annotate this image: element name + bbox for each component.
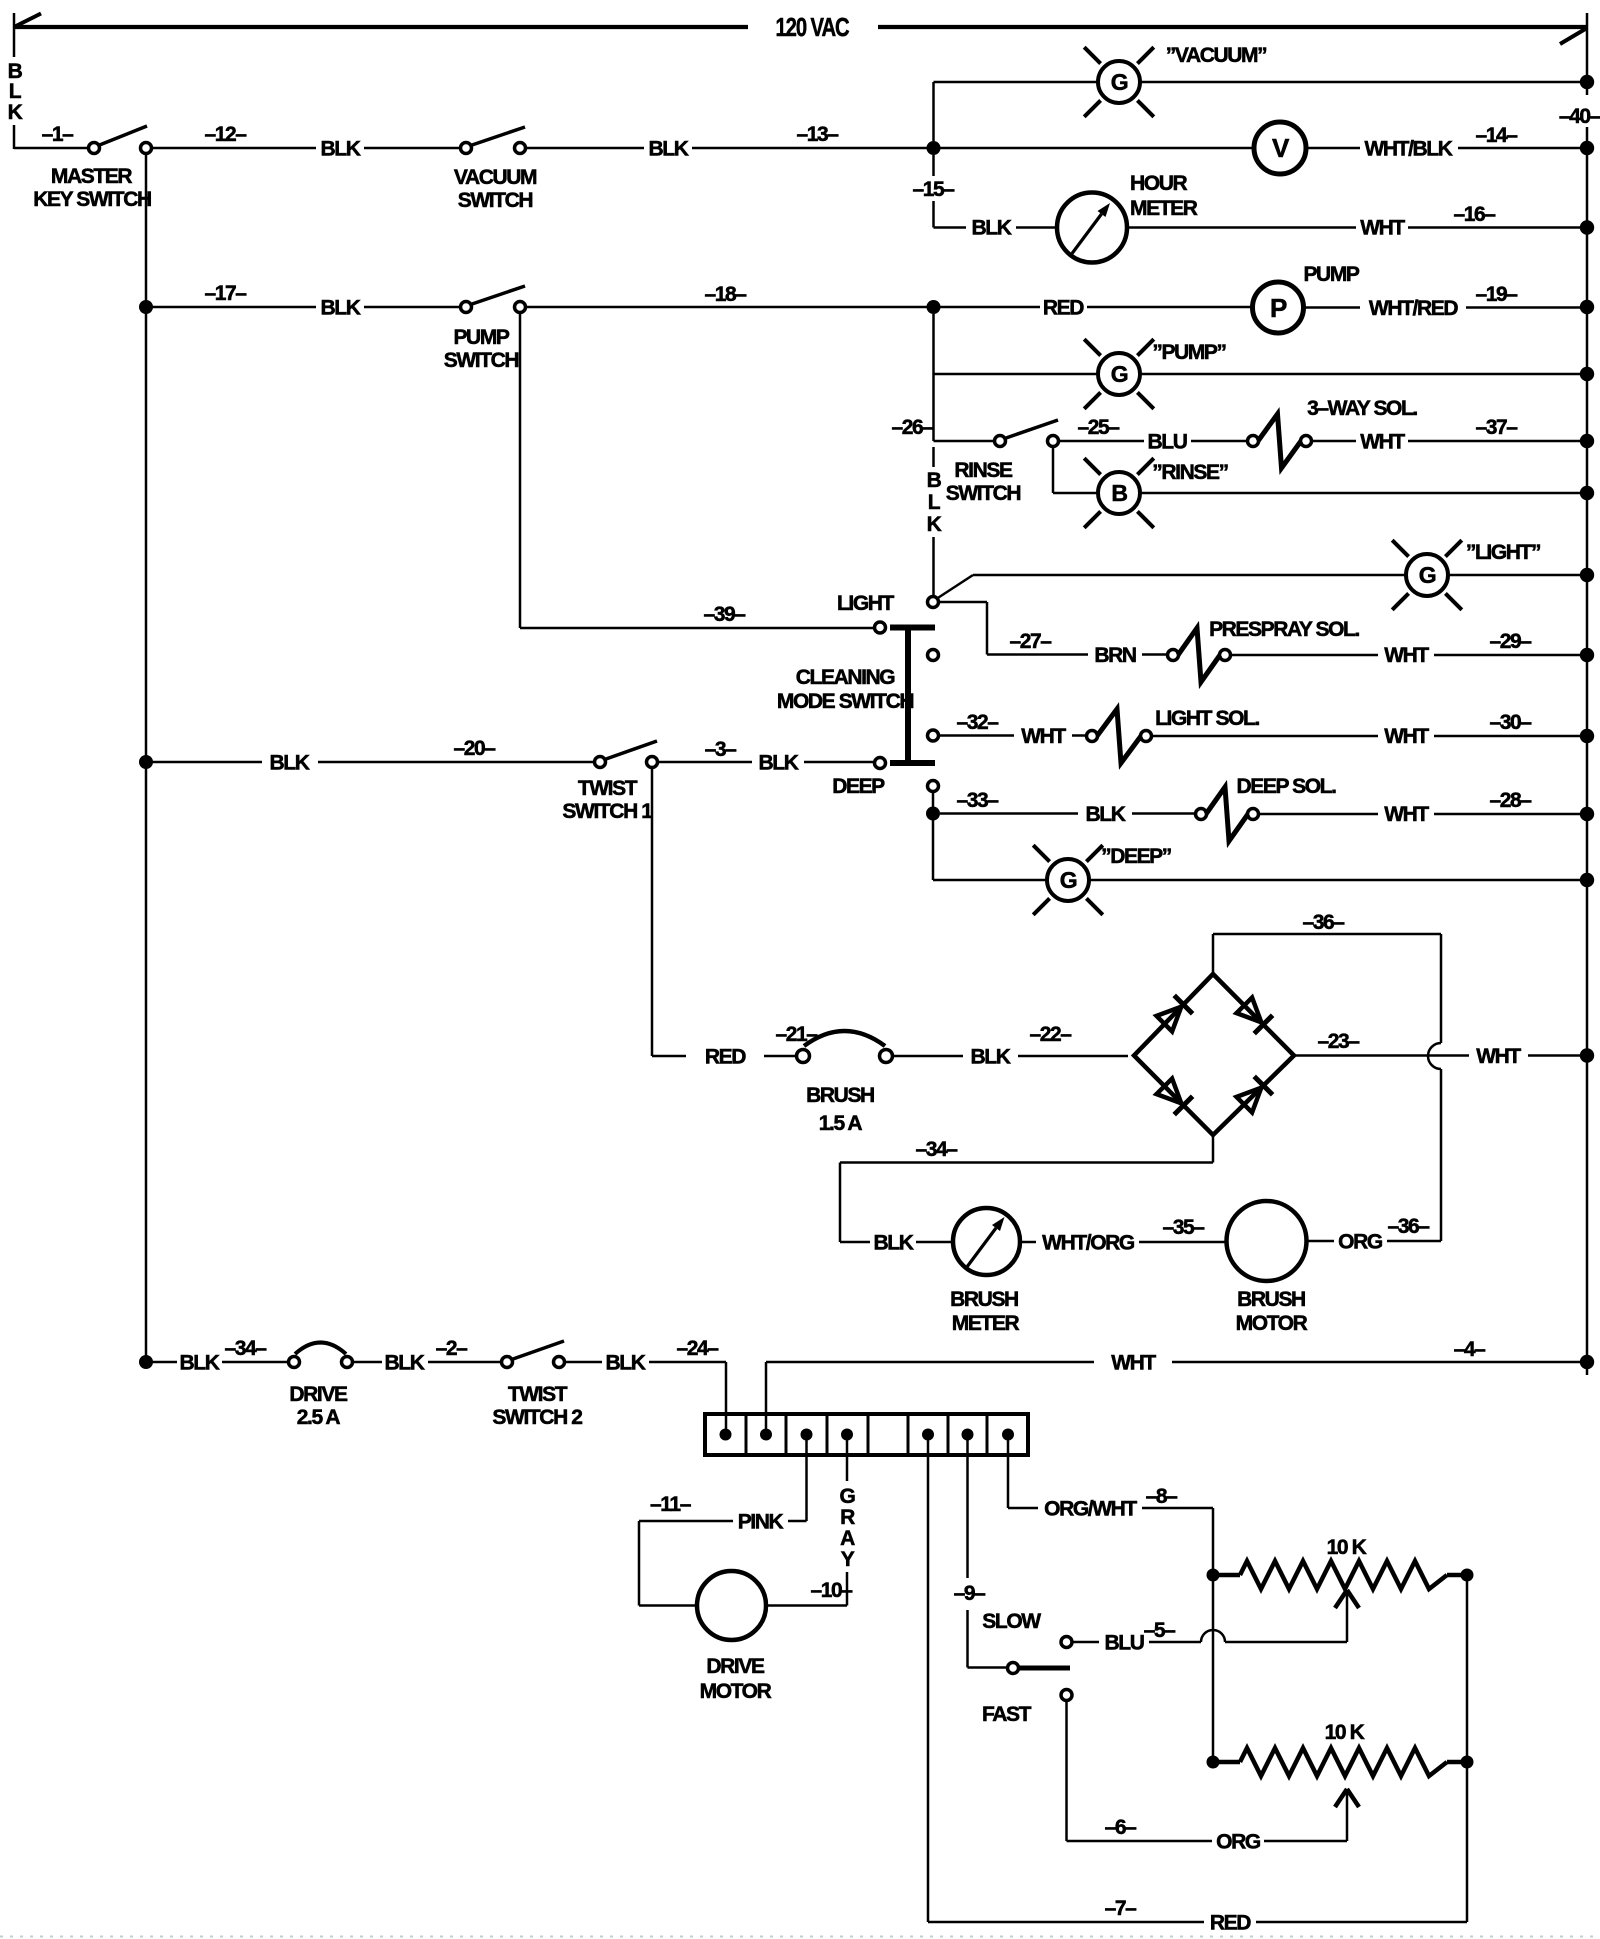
- wire hour meter lead b: [1016, 226, 1057, 229]
- junction bus rinse lamp row: [1580, 486, 1594, 500]
- svg-text:BLK: BLK: [321, 297, 361, 320]
- wire vacuum lamp branch horizontal: [934, 81, 1099, 84]
- net label BLK vertical: [927, 469, 942, 536]
- wire label -29-: [1489, 630, 1532, 653]
- wire label ORG/WHT: [1044, 1498, 1137, 1521]
- junction bus pump row: [1580, 300, 1594, 314]
- wire label -34-: [915, 1138, 958, 1161]
- wire hour meter lead a: [934, 226, 967, 229]
- wire label -18-: [704, 283, 747, 306]
- svg-text:WHT/BLK: WHT/BLK: [1364, 138, 1452, 161]
- wire label -9-: [954, 1582, 987, 1605]
- wire deep contact to junction: [932, 792, 935, 808]
- svg-text:BRUSH: BRUSH: [1237, 1288, 1305, 1311]
- wire label -13-: [796, 123, 839, 146]
- switch S6 twist switch 1: [595, 741, 658, 768]
- wire row1 lead: [14, 147, 88, 150]
- wire -29- segment b: [1434, 654, 1580, 657]
- wire label -23-: [1317, 1030, 1360, 1053]
- wire -12- segment a: [152, 147, 316, 150]
- label LIGHT SOL.: [1155, 707, 1259, 730]
- wire bottom rail b: [222, 1361, 288, 1364]
- diode D2 bridge upper-right: [1235, 996, 1272, 1033]
- breaker CB1 brush 1.5A: [797, 1031, 893, 1063]
- svg-text:VACUUM: VACUUM: [454, 166, 537, 189]
- svg-text:–23–: –23–: [1317, 1030, 1360, 1053]
- svg-text:L: L: [928, 491, 941, 514]
- wire label -15-: [912, 178, 955, 201]
- wire -5- segment b: [1149, 1641, 1201, 1644]
- label TWIST SWITCH 2: [492, 1383, 582, 1429]
- svg-text:–26–: –26–: [891, 416, 934, 439]
- wire label -25-: [1077, 416, 1120, 439]
- wire -8- row b: [1142, 1507, 1213, 1510]
- svg-text:WHT: WHT: [1360, 217, 1405, 240]
- wire rinse lamp to bus: [1140, 492, 1580, 495]
- wire label -21-: [775, 1023, 818, 1046]
- solenoid L2 prespray sol: [1168, 628, 1231, 682]
- svg-text:V: V: [1272, 133, 1290, 163]
- wire label BLK (-20-): [270, 752, 310, 775]
- wire -3- segment a: [658, 761, 752, 764]
- wire -16- segment b: [1408, 226, 1580, 229]
- wire -33- segment b: [1132, 812, 1195, 815]
- wire label BLK (row1 a): [321, 138, 361, 161]
- svg-text:–20–: –20–: [453, 737, 496, 760]
- wire -18-: [526, 306, 927, 309]
- svg-text:Y: Y: [841, 1548, 855, 1571]
- meter M2 brush meter: [953, 1208, 1020, 1275]
- wire label -28-: [1489, 789, 1532, 812]
- wire label WHT (prespray): [1384, 644, 1429, 667]
- wire label WHT (-4-): [1111, 1352, 1156, 1375]
- wire -22- segment a: [893, 1055, 963, 1058]
- svg-text:–11–: –11–: [650, 1493, 692, 1516]
- label RINSE SWITCH: [946, 459, 1021, 505]
- wire -37- segment a: [1312, 440, 1356, 443]
- svg-text:WHT: WHT: [1111, 1352, 1156, 1375]
- wire -39-: [520, 627, 873, 630]
- wire brush meter lead b: [916, 1241, 953, 1244]
- bus right vertical main: [1586, 127, 1589, 1375]
- svg-text:ORG: ORG: [1338, 1231, 1383, 1254]
- svg-text:”VACUUM”: ”VACUUM”: [1166, 44, 1266, 67]
- svg-text:–32–: –32–: [956, 711, 999, 734]
- scan artifact bottom dotted line: [0, 1936, 1600, 1938]
- svg-text:–34–: –34–: [224, 1337, 267, 1360]
- switch S5 cleaning mode switch body: [875, 622, 936, 769]
- lamp DS1 vacuum indicator: [1084, 47, 1154, 117]
- wire -25- segment b: [1191, 440, 1247, 443]
- wire -30- segment b: [1434, 735, 1580, 738]
- svg-text:–6–: –6–: [1105, 1816, 1138, 1839]
- label SLOW position: [982, 1610, 1041, 1633]
- junction node 13: [927, 141, 941, 155]
- label BRUSH MOTOR: [1236, 1288, 1308, 1335]
- wire to speed switch common: [968, 1666, 1009, 1669]
- svg-text:–5–: –5–: [1144, 1619, 1177, 1642]
- svg-text:G: G: [1060, 867, 1077, 893]
- wire label ORG (brush motor): [1338, 1231, 1383, 1254]
- label DEEP SOL.: [1236, 775, 1336, 798]
- svg-text:CLEANING: CLEANING: [796, 666, 896, 689]
- svg-text:BRN: BRN: [1094, 644, 1136, 667]
- wiper arrow R1: [1335, 1590, 1359, 1608]
- wire common to light lamp diagonal: [937, 575, 973, 599]
- svg-text:BLK: BLK: [759, 752, 799, 775]
- wire -7- segment a: [928, 1921, 1204, 1924]
- wire -13- segment b: [692, 147, 927, 150]
- svg-text:SWITCH 2: SWITCH 2: [492, 1406, 582, 1429]
- svg-text:RINSE: RINSE: [954, 459, 1013, 482]
- wire -34- left vertical: [839, 1163, 842, 1243]
- svg-text:SLOW: SLOW: [982, 1610, 1041, 1633]
- wire top 120 VAC rail segment left: [14, 25, 748, 29]
- wire -17- segment a: [152, 306, 316, 309]
- wire label BLK (-22-): [971, 1046, 1011, 1069]
- label BRUSH METER: [950, 1288, 1019, 1335]
- svg-text:–15–: –15–: [912, 178, 955, 201]
- label BRUSH 1.5 A: [806, 1084, 874, 1135]
- wire -20- segment b: [318, 761, 594, 764]
- svg-text:WHT/ORG: WHT/ORG: [1042, 1232, 1135, 1255]
- svg-text:WHT: WHT: [1021, 725, 1066, 748]
- wire left rail vertical: [145, 148, 148, 1362]
- svg-text:SWITCH 1: SWITCH 1: [562, 800, 653, 823]
- wire common to prespray vertical: [986, 602, 989, 655]
- wire -36- top horizontal: [1213, 933, 1441, 936]
- svg-text:RED: RED: [1043, 297, 1084, 320]
- wire label PINK: [738, 1511, 784, 1534]
- svg-text:PRESPRAY SOL.: PRESPRAY SOL.: [1209, 618, 1359, 641]
- switch S8 speed select: [1008, 1637, 1073, 1701]
- wire -24- drop to terminal 1: [725, 1362, 728, 1434]
- svg-text:MASTER: MASTER: [51, 165, 133, 188]
- wire -6- segment a: [1067, 1840, 1213, 1843]
- wire GRAY vertical lower: [846, 1572, 849, 1606]
- switch S3 pump switch: [461, 286, 526, 313]
- switch S7 twist switch 2: [502, 1341, 565, 1368]
- wire label WHT (-30-): [1384, 725, 1429, 748]
- svg-text:10 K: 10 K: [1325, 1721, 1365, 1744]
- wire -10- drive motor lead right: [766, 1604, 847, 1607]
- wire -33- segment a: [940, 812, 1078, 815]
- svg-text:”LIGHT”: ”LIGHT”: [1466, 541, 1540, 564]
- junction bus brush row: [1580, 1048, 1594, 1062]
- svg-text:–24–: –24–: [676, 1337, 719, 1360]
- label TWIST SWITCH 1: [562, 777, 653, 823]
- svg-text:–39–: –39–: [703, 603, 746, 626]
- bus right vertical upper: [1586, 13, 1589, 95]
- lamp DS5 deep indicator: [1033, 845, 1103, 915]
- wire label BRN: [1094, 644, 1136, 667]
- svg-text:–19–: –19–: [1475, 283, 1518, 306]
- wire label -26-: [891, 416, 934, 439]
- connector TB1 terminal block: [705, 1414, 1028, 1455]
- wire -36- bridge top vertical: [1212, 934, 1215, 974]
- net label GRAY vertical: [840, 1485, 856, 1571]
- wire deep lamp to bus: [1089, 879, 1580, 882]
- net label BLK left feed: [8, 60, 23, 124]
- junction R2 right: [1461, 1756, 1474, 1769]
- wire label -40-: [1559, 105, 1600, 128]
- svg-text:WHT/RED: WHT/RED: [1369, 297, 1458, 320]
- svg-text:–7–: –7–: [1105, 1897, 1138, 1920]
- wire label ORG (-6-): [1216, 1831, 1261, 1854]
- node mode switch deep contact: [928, 781, 939, 792]
- wire -35- segment b: [1139, 1241, 1226, 1244]
- arrow top-right rail end: [1560, 28, 1587, 44]
- svg-text:–9–: –9–: [954, 1582, 987, 1605]
- wire pump lamp branch horizontal: [934, 373, 1099, 376]
- wire label WHT/RED: [1369, 297, 1458, 320]
- wire -6- segment b: [1264, 1840, 1347, 1843]
- value label 10 K (R2): [1325, 1721, 1365, 1744]
- svg-text:P: P: [1270, 293, 1287, 323]
- wire bottom rail a: [152, 1361, 177, 1364]
- junction bus deep sol row: [1580, 807, 1594, 821]
- svg-text:WHT: WHT: [1384, 725, 1429, 748]
- svg-text:PUMP: PUMP: [1303, 263, 1359, 286]
- svg-text:–17–: –17–: [204, 282, 247, 305]
- wire twist1 drop vertical: [651, 768, 654, 1056]
- junction left rail bottom row: [139, 1355, 153, 1369]
- switch S2 vacuum switch: [461, 127, 526, 154]
- wire label -8-: [1146, 1485, 1179, 1508]
- svg-text:G: G: [1419, 562, 1436, 588]
- wire GRAY vertical upper: [846, 1440, 849, 1481]
- junction node 33: [926, 807, 940, 821]
- svg-text:–30–: –30–: [1489, 711, 1532, 734]
- wire -27- segment b: [1142, 653, 1167, 656]
- wire common to prespray horizontal: [939, 601, 987, 604]
- label DRIVE MOTOR: [700, 1655, 772, 1703]
- wire label -32-: [956, 711, 999, 734]
- wire label RED (-21-): [705, 1046, 746, 1069]
- wire label -19-: [1475, 283, 1518, 306]
- junction R1 right: [1461, 1569, 1474, 1582]
- wire -21- segment b: [764, 1055, 796, 1058]
- wire pump switch drop vertical: [519, 313, 522, 628]
- wire terminal 7 vertical upper: [966, 1440, 969, 1578]
- motor M3 brush motor: [1227, 1201, 1307, 1281]
- wire bottom rail c: [353, 1361, 382, 1364]
- breaker CB2 drive 2.5A: [289, 1343, 353, 1368]
- svg-text:KEY SWITCH: KEY SWITCH: [33, 188, 151, 211]
- junction bus 3-way row: [1580, 434, 1594, 448]
- wire pump lamp to bus: [1140, 373, 1580, 376]
- wire -17- segment b: [364, 306, 461, 309]
- wire label -14-: [1475, 124, 1518, 147]
- wire -21- segment a: [652, 1055, 686, 1058]
- svg-text:MODE SWITCH: MODE SWITCH: [777, 690, 913, 713]
- junction bus row1: [1580, 141, 1594, 155]
- solenoid L4 deep sol: [1196, 787, 1259, 841]
- label &#8221;LIGHT&#8221;: [1466, 541, 1540, 564]
- wire -5- segment c: [1225, 1641, 1347, 1644]
- wire -37- segment b: [1408, 440, 1580, 443]
- svg-text:LIGHT SOL.: LIGHT SOL.: [1155, 707, 1259, 730]
- svg-text:”PUMP”: ”PUMP”: [1152, 341, 1225, 364]
- wire -13- segment a: [526, 147, 644, 150]
- svg-text:–25–: –25–: [1077, 416, 1120, 439]
- wire terminal 6 to RED row: [927, 1440, 930, 1922]
- svg-text:BLK: BLK: [972, 217, 1012, 240]
- wire label WHT/BLK: [1364, 138, 1452, 161]
- wire label -5-: [1144, 1619, 1177, 1642]
- wire -36- motor lead a: [1306, 1240, 1334, 1243]
- wire top 120 VAC rail segment right: [878, 25, 1587, 29]
- label 3-WAY SOL.: [1307, 397, 1417, 420]
- svg-text:BLK: BLK: [649, 138, 689, 161]
- label CLEANING MODE SWITCH: [777, 666, 913, 713]
- label &#8221;DEEP&#8221;: [1101, 845, 1171, 868]
- junction bus bottom row: [1580, 1355, 1594, 1369]
- wire -27- segment a: [987, 653, 1088, 656]
- wire -19- segment b: [1466, 306, 1580, 309]
- svg-text:–22–: –22–: [1029, 1023, 1072, 1046]
- wire -7- segment b: [1256, 1921, 1467, 1924]
- svg-text:DEEP SOL.: DEEP SOL.: [1236, 775, 1336, 798]
- wire label -11-: [650, 1493, 692, 1516]
- wire PINK row b: [639, 1520, 733, 1523]
- wire light lamp row: [973, 574, 1406, 577]
- junction left rail twist row: [139, 755, 153, 769]
- wire -5- wiper vertical: [1346, 1592, 1349, 1642]
- wire -8- vertical to R1: [1212, 1508, 1215, 1575]
- svg-text:BLU: BLU: [1105, 1632, 1144, 1655]
- svg-text:G: G: [1111, 361, 1128, 387]
- svg-text:TWIST: TWIST: [508, 1383, 568, 1406]
- arrow top-left rail end: [14, 14, 41, 28]
- svg-text:–13–: –13–: [796, 123, 839, 146]
- wire -15- vertical a: [932, 155, 935, 176]
- node cleaning mode common contact: [928, 597, 939, 608]
- node mode switch -32- contact: [928, 730, 939, 741]
- rectifier BR1 bridge diamond: [1134, 974, 1294, 1135]
- svg-text:SWITCH: SWITCH: [444, 349, 519, 372]
- wire -12- segment b: [364, 147, 461, 150]
- svg-text:BLK: BLK: [606, 1352, 646, 1375]
- svg-text:LIGHT: LIGHT: [837, 592, 895, 615]
- wire -25- segment a: [1059, 440, 1144, 443]
- wiper arrow R2: [1335, 1789, 1359, 1807]
- wire terminal 7 vertical lower: [966, 1610, 969, 1668]
- wire -15- vertical b: [932, 201, 935, 228]
- svg-text:DRIVE: DRIVE: [706, 1655, 765, 1678]
- svg-text:–34–: –34–: [915, 1138, 958, 1161]
- wire label BLU (3-way): [1148, 431, 1187, 454]
- wire rinse row lead: [934, 440, 995, 443]
- wire -36- right vertical lower: [1440, 1069, 1443, 1241]
- wire to pump motor a: [940, 306, 1040, 309]
- wire label BLK (bottom b): [385, 1352, 425, 1375]
- wire -22- segment b: [1018, 1055, 1128, 1058]
- wire -30- segment a: [1152, 735, 1378, 738]
- label DRIVE 2.5 A: [289, 1383, 348, 1429]
- wire label WHT (hour meter): [1360, 217, 1405, 240]
- svg-text:–37–: –37–: [1475, 416, 1518, 439]
- svg-text:A: A: [840, 1527, 855, 1550]
- svg-text:BLK: BLK: [1086, 803, 1126, 826]
- wire pot ladder right vertical: [1466, 1575, 1469, 1922]
- wire label WHT (3-way): [1360, 431, 1405, 454]
- net label 120 VAC: [776, 12, 850, 42]
- svg-text:BLK: BLK: [971, 1046, 1011, 1069]
- svg-text:PINK: PINK: [738, 1511, 784, 1534]
- wire -4- drop to terminal 2: [765, 1362, 768, 1434]
- label HOUR METER: [1130, 172, 1198, 220]
- label LIGHT position: [837, 592, 895, 615]
- svg-text:–16–: –16–: [1453, 203, 1496, 226]
- wire -24- segment a: [565, 1361, 602, 1364]
- wire -23- segment a: [1294, 1054, 1469, 1057]
- svg-text:WHT: WHT: [1384, 644, 1429, 667]
- junction R2 left: [1207, 1756, 1220, 1769]
- wire rinse lamp branch horizontal: [1053, 492, 1098, 495]
- wire label -33-: [956, 789, 999, 812]
- wire label -35-: [1162, 1216, 1205, 1239]
- svg-text:”DEEP”: ”DEEP”: [1101, 845, 1171, 868]
- svg-text:2.5 A: 2.5 A: [297, 1406, 341, 1429]
- wire BLK drop upper: [932, 447, 935, 467]
- label PUMP SWITCH: [444, 326, 519, 372]
- svg-text:–36–: –36–: [1302, 911, 1345, 934]
- svg-text:–40–: –40–: [1559, 105, 1600, 128]
- svg-text:BLK: BLK: [385, 1352, 425, 1375]
- label PUMP (motor): [1303, 263, 1359, 286]
- wire deep lamp branch horizontal: [933, 879, 1047, 882]
- wire label RED (pump): [1043, 297, 1084, 320]
- wire -3- segment b: [804, 761, 873, 764]
- value label 10 K (R1): [1327, 1536, 1367, 1559]
- svg-text:–12–: –12–: [204, 123, 247, 146]
- wire label BLK (row2 a): [321, 297, 361, 320]
- solenoid L3 light sol: [1087, 709, 1152, 763]
- wire label BLK (-3-): [759, 752, 799, 775]
- wire -24- segment b: [649, 1361, 726, 1364]
- svg-text:G: G: [840, 1485, 856, 1508]
- wire -6- wiper vertical: [1346, 1791, 1349, 1841]
- svg-text:METER: METER: [1130, 197, 1198, 220]
- svg-text:–14–: –14–: [1475, 124, 1518, 147]
- wire -4- WHT row a: [766, 1361, 1094, 1364]
- svg-text:L: L: [9, 80, 22, 103]
- wire deep lamp branch vertical: [932, 820, 935, 880]
- svg-text:TWIST: TWIST: [578, 777, 638, 800]
- junction bus light sol row: [1580, 729, 1594, 743]
- wire vacuum lamp branch vertical: [932, 82, 935, 141]
- wire label BLK (brush meter): [874, 1232, 914, 1255]
- label MASTER KEY SWITCH: [33, 165, 151, 211]
- svg-text:1.5 A: 1.5 A: [819, 1112, 863, 1135]
- diode D3 bridge lower-left: [1155, 1077, 1192, 1114]
- svg-text:–18–: –18–: [704, 283, 747, 306]
- svg-text:–28–: –28–: [1489, 789, 1532, 812]
- wire -19- segment a: [1303, 306, 1360, 309]
- label VACUUM SWITCH: [454, 166, 537, 212]
- wire label -22-: [1029, 1023, 1072, 1046]
- wire -11- vertical: [638, 1521, 641, 1606]
- svg-text:FAST: FAST: [982, 1703, 1032, 1726]
- svg-text:RED: RED: [705, 1046, 746, 1069]
- label PRESPRAY SOL.: [1209, 618, 1359, 641]
- wire left feed vertical bottom: [13, 125, 16, 149]
- svg-text:MOTOR: MOTOR: [1236, 1312, 1308, 1335]
- svg-text:–2–: –2–: [436, 1337, 469, 1360]
- wire left feed vertical top: [13, 13, 16, 57]
- wire -4- WHT row b: [1172, 1361, 1580, 1364]
